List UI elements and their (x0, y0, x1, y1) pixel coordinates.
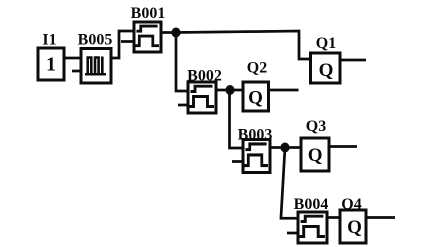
svg-text:1: 1 (46, 54, 56, 76)
svg-text:B003: B003 (238, 127, 273, 144)
svg-text:Q: Q (248, 88, 263, 109)
svg-text:Q: Q (347, 217, 362, 238)
svg-text:B001: B001 (131, 5, 166, 22)
svg-text:B004: B004 (294, 196, 329, 213)
svg-text:Q2: Q2 (247, 60, 267, 77)
svg-text:Q3: Q3 (306, 118, 326, 135)
svg-text:Q: Q (319, 60, 334, 81)
svg-text:B002: B002 (187, 68, 222, 85)
svg-text:Q1: Q1 (316, 35, 336, 52)
svg-text:Q: Q (308, 145, 323, 166)
svg-text:B005: B005 (78, 32, 113, 49)
svg-text:I1: I1 (42, 32, 56, 49)
svg-text:Q4: Q4 (341, 196, 361, 213)
